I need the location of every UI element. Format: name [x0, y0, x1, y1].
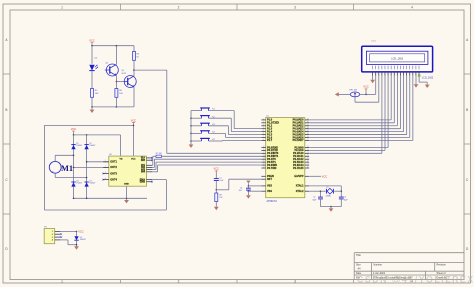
wire [360, 93, 366, 95]
svg-text:17: 17 [263, 167, 265, 169]
pin XTAL1 [305, 185, 309, 187]
pin 10 LCD [399, 66, 401, 70]
pin 5 LCD [384, 66, 386, 70]
pin OUT4 [103, 179, 109, 181]
svg-text:27: 27 [307, 164, 309, 166]
button K5 [191, 140, 202, 142]
LED D5 [89, 65, 94, 71]
wire IN4 to P3.6 [152, 171, 158, 173]
wire [91, 97, 93, 107]
svg-text:B: B [5, 108, 7, 112]
svg-text:VSS: VSS [267, 185, 272, 188]
node Q1 emitter / Q2 base [116, 81, 118, 83]
wire [247, 186, 249, 188]
wire [248, 185, 261, 187]
pin 16 LCD [418, 66, 420, 70]
wire motor bottom terminal [54, 173, 56, 177]
pin P0.6/AD6 [305, 136, 309, 138]
svg-text:B: B [466, 108, 468, 112]
pin P0.0/AD0 [305, 119, 309, 121]
pin 15 LCD [415, 66, 417, 70]
svg-text:CSDN @47/YOLIZREXY: CSDN @47/YOLIZREXY [357, 275, 474, 285]
wire RW [384, 76, 386, 151]
ground under buttons [189, 145, 194, 148]
svg-text:15: 15 [263, 161, 265, 163]
wire [216, 189, 229, 191]
svg-text:XTAL1: XTAL1 [296, 185, 304, 188]
wire LCD BLK to ground [418, 76, 420, 83]
svg-text:10: 10 [263, 146, 265, 148]
trimmer RP1 [350, 92, 359, 97]
svg-text:VCC: VCC [71, 127, 77, 131]
ground LCD BLA [414, 84, 419, 87]
svg-text:VCC: VCC [322, 174, 328, 178]
wire [321, 206, 342, 208]
svg-text:30pF: 30pF [312, 199, 316, 201]
svg-text:Title: Title [356, 253, 361, 257]
svg-text:22: 22 [307, 149, 309, 151]
svg-text:32: 32 [307, 139, 309, 141]
capacitor C3 30pF [339, 196, 344, 198]
svg-text:4: 4 [52, 239, 53, 242]
svg-text:VCC: VCC [89, 38, 95, 42]
buttons common line [190, 111, 192, 145]
pin P0.7/AD7 [305, 139, 309, 141]
ground connector [74, 246, 79, 249]
pin P3.0/RXD [261, 147, 265, 149]
connector P1 [44, 229, 55, 244]
node RST [216, 189, 218, 191]
capacitor C2 30pF [318, 196, 323, 198]
wire column A [73, 135, 75, 198]
wire to MCU [134, 69, 167, 71]
pin PSEN [261, 175, 265, 177]
wire [91, 71, 93, 89]
wire IN3 to P3.5 [152, 169, 156, 171]
svg-text:39: 39 [307, 118, 309, 120]
svg-text:P1.7: P1.7 [267, 139, 273, 142]
svg-text:P3.7/RD: P3.7/RD [267, 167, 277, 170]
svg-text:XTAL2: XTAL2 [296, 190, 304, 193]
resistor R6 [115, 89, 118, 98]
pin P2.2/A10 [305, 152, 309, 154]
svg-text:P0.7/AD7: P0.7/AD7 [293, 139, 304, 142]
pin P1.4 [261, 131, 265, 133]
wire driver GND pin [126, 186, 128, 198]
pin ISA [146, 157, 152, 159]
wire XTAL1 [309, 185, 341, 187]
wire Q1 emitter [115, 76, 117, 89]
wire motor loop [43, 125, 45, 210]
svg-text:LCD_1602: LCD_1602 [422, 76, 434, 79]
pin 6 LCD [387, 66, 389, 70]
wire node B to OUT1 [87, 161, 109, 163]
pin 11 LCD [403, 66, 405, 70]
svg-text:LCD_1602: LCD_1602 [391, 57, 404, 60]
svg-text:1: 1 [61, 279, 63, 283]
wire [248, 190, 261, 192]
pin RST [261, 178, 265, 180]
node PWM out [133, 69, 135, 71]
wire [247, 191, 249, 195]
pin ENB [146, 181, 152, 183]
wire [152, 179, 166, 181]
svg-text:OUT2: OUT2 [110, 166, 117, 169]
pin 13 LCD [409, 66, 411, 70]
pin 1 LCD [372, 66, 374, 70]
pin OUT1 [103, 161, 109, 163]
pin P2.7/A15 [305, 167, 309, 169]
pin OUT2 [103, 166, 109, 168]
pin P1.1/T2EX [261, 122, 265, 124]
button K1 [191, 110, 202, 112]
pin 2 connector [55, 233, 61, 235]
svg-text:Y1: Y1 [326, 187, 328, 189]
pin P1.3 [261, 128, 265, 130]
pin IN3 [146, 169, 152, 171]
pin P2.6/A14 [305, 164, 309, 166]
wire LCD VSS to ground [372, 76, 374, 80]
svg-text:P2.7/A15: P2.7/A15 [293, 167, 304, 170]
capacitor C1 [214, 178, 219, 180]
ground LCD BLK [425, 85, 430, 88]
wire LCD BLA to ground [415, 76, 417, 85]
svg-text:AT89C51: AT89C51 [267, 200, 278, 203]
pin P2.4/A12 [305, 158, 309, 160]
svg-text:23: 23 [307, 152, 309, 154]
svg-text:EA/VPP: EA/VPP [294, 175, 304, 178]
svg-text:34: 34 [307, 133, 309, 135]
svg-text:1: 1 [52, 231, 53, 233]
svg-text:OUT3: OUT3 [110, 172, 117, 175]
pin XTAL2 [305, 190, 309, 192]
svg-text:1: 1 [61, 6, 63, 10]
svg-text:VCC: VCC [363, 85, 369, 89]
svg-text:VCC: VCC [131, 118, 137, 122]
pin 3 connector [55, 236, 61, 238]
wire connector pin1 to VCC [60, 230, 76, 232]
svg-text:RP1 10K: RP1 10K [350, 90, 358, 92]
pin P3.5/T1 [261, 161, 265, 163]
svg-text:1N4007: 1N4007 [80, 239, 86, 241]
wire to driver VCC pin [120, 135, 122, 156]
diode D2 1N4007 [84, 144, 88, 146]
wire [215, 202, 217, 207]
ground under R5 [91, 107, 93, 110]
wire driver ENB to loop [165, 180, 167, 210]
svg-text:13: 13 [263, 155, 265, 157]
pin 1 connector [55, 230, 61, 232]
wire K1 to MCU [233, 111, 235, 129]
wire [91, 46, 93, 64]
wire top rail [92, 45, 134, 47]
wire [340, 199, 342, 207]
svg-text:RST: RST [267, 178, 272, 181]
svg-text:R7 10K: R7 10K [156, 153, 163, 155]
svg-text:Q2: Q2 [122, 70, 125, 72]
transistor Q1 [106, 64, 118, 76]
capacitor C4 [246, 187, 251, 189]
wire IN1 to P3.3 with series resistor R7 [151, 164, 154, 166]
wire RS [381, 76, 383, 154]
wire K3 to MCU [227, 126, 229, 135]
wire K5 to MCU [222, 139, 224, 142]
wire [339, 93, 351, 95]
ground crystal [329, 208, 334, 211]
crystal Y1 [321, 190, 326, 192]
pin P0.1/AD1 [305, 122, 309, 124]
button K2 [191, 117, 202, 119]
wire Q2 collector [133, 60, 135, 76]
svg-text:3: 3 [52, 237, 53, 239]
pin P1.5 [261, 134, 265, 136]
node B [86, 177, 88, 179]
wire E [387, 76, 389, 148]
wire D6 [409, 76, 411, 138]
pin IN4 [146, 171, 152, 173]
net label LCD_1602 [418, 74, 421, 77]
svg-text:M1: M1 [61, 164, 73, 173]
wire column B [86, 135, 88, 198]
svg-text:1N4007: 1N4007 [89, 183, 95, 185]
svg-text:R8: R8 [219, 195, 221, 197]
svg-text:25: 25 [307, 158, 309, 160]
pin P2.1/A9 [305, 149, 309, 151]
wire to driver VS pin [133, 125, 135, 156]
wire [247, 190, 249, 191]
node collector Q1 [116, 45, 118, 47]
pin 4 LCD [381, 66, 383, 70]
svg-text:3: 3 [294, 279, 296, 283]
wire VCC rail [74, 134, 121, 136]
button K3 [191, 125, 202, 127]
wire Q1 collector [115, 46, 117, 65]
diode D1 1N4007 [71, 144, 75, 146]
svg-text:ENB: ENB [140, 181, 145, 184]
resistor R4 [133, 52, 136, 61]
pin P3.1/TXD [261, 149, 265, 151]
pin 12 LCD [406, 66, 408, 70]
wire D7 [412, 76, 414, 141]
pin P0.5/AD5 [305, 134, 309, 136]
diode D6 1N4007 [74, 236, 78, 240]
svg-text:OUT4: OUT4 [110, 178, 117, 181]
wire bottom rail [92, 106, 134, 108]
svg-text:OUT1: OUT1 [110, 161, 117, 164]
svg-text:26: 26 [307, 161, 309, 163]
MCU U1 AT89C51 [266, 118, 305, 198]
pin EA/VPP [305, 175, 309, 177]
svg-text:21: 21 [307, 146, 309, 148]
wire [76, 231, 78, 236]
svg-text:30pF: 30pF [344, 199, 348, 201]
resistor R5 [91, 89, 94, 98]
wire K2 to MCU [230, 118, 232, 131]
wire motor top terminal [54, 155, 56, 161]
svg-text:VCC: VCC [214, 167, 220, 171]
svg-text:36: 36 [307, 127, 309, 129]
wire [215, 190, 217, 193]
svg-text:VCC: VCC [78, 230, 84, 234]
power GND arrow above C4 [246, 181, 250, 184]
wire Q2 emitter [133, 87, 135, 107]
pin P3.4/T0 [261, 158, 265, 160]
svg-text:2: 2 [178, 279, 180, 283]
svg-text:LCD1: LCD1 [371, 41, 377, 43]
wire [116, 81, 124, 83]
diode D4 1N4007 [84, 181, 88, 183]
wire vertical [166, 70, 168, 153]
pin 9 LCD [396, 66, 398, 70]
svg-text:28: 28 [307, 167, 309, 169]
svg-text:11: 11 [263, 149, 265, 151]
pin P2.5/A13 [305, 161, 309, 163]
ground rail under driver [74, 197, 148, 199]
svg-text:35: 35 [307, 130, 309, 132]
pin P2.3/A11 [305, 155, 309, 157]
svg-text:12: 12 [263, 152, 265, 154]
wire [215, 181, 217, 190]
wire D1 [393, 76, 395, 123]
pin P3.6/WR [261, 164, 265, 166]
pin P0.2/AD2 [305, 125, 309, 127]
ground C4 [246, 195, 251, 198]
wire [76, 240, 78, 246]
svg-text:ISB: ISB [141, 159, 145, 162]
svg-text:4: 4 [411, 6, 413, 10]
svg-text:GND: GND [124, 184, 129, 186]
svg-text:Number: Number [374, 264, 383, 267]
wire [133, 46, 135, 52]
pin P0.3/AD3 [305, 128, 309, 130]
pin P3.3/INT1 [261, 155, 265, 157]
svg-text:2: 2 [52, 234, 53, 236]
svg-text:33: 33 [307, 136, 309, 138]
svg-text:24: 24 [307, 155, 309, 157]
wire D3 [399, 76, 401, 129]
wire EA to VCC [309, 175, 321, 177]
pin P1.0 [261, 119, 265, 121]
svg-text:3: 3 [294, 6, 296, 10]
pin P3.2/INT0 [261, 152, 265, 154]
svg-text:16: 16 [263, 164, 265, 166]
svg-text:12MHz: 12MHz [326, 196, 332, 198]
svg-text:1N4007: 1N4007 [89, 145, 95, 147]
wire RP1 wiper to LCD VL [354, 97, 356, 102]
pin 7 LCD [390, 66, 392, 70]
wire LCD VDD to VCC [375, 76, 377, 95]
wire [115, 97, 117, 107]
pin IN2 [146, 166, 152, 168]
svg-text:VSS: VSS [267, 190, 272, 193]
ground left arrow at RP1 [335, 92, 339, 96]
motor driver U2 [109, 156, 147, 186]
pin P2.0/A8 [305, 147, 309, 149]
pin P1.2 [261, 125, 265, 127]
title block [354, 252, 464, 254]
ground [90, 110, 95, 113]
pin VSS [261, 190, 265, 192]
svg-text:1N4007: 1N4007 [76, 183, 82, 185]
diode D3 1N4007 [71, 181, 75, 183]
wire D2 [396, 76, 398, 126]
wire XTAL2 [309, 190, 320, 192]
svg-text:C2: C2 [313, 197, 315, 199]
resistor R8 [215, 193, 218, 202]
pin 14 LCD [412, 66, 414, 70]
pin 2 LCD [375, 66, 377, 70]
svg-text:38: 38 [307, 121, 309, 123]
wire K4 to MCU [225, 133, 227, 137]
wire [320, 199, 322, 207]
wire D4 [403, 76, 405, 132]
pin P1.6 [261, 136, 265, 138]
svg-text:IN4: IN4 [141, 171, 146, 174]
ground reset [214, 207, 219, 210]
svg-text:9013: 9013 [122, 73, 126, 75]
pin ISB [146, 159, 152, 161]
wire to P3.2 [167, 152, 262, 154]
transistor Q2 [124, 76, 136, 88]
svg-text:2: 2 [178, 6, 180, 10]
wire D5 [406, 76, 408, 135]
pin P3.7/RD [261, 167, 265, 169]
ground driver [124, 200, 129, 203]
svg-text:14: 14 [263, 158, 265, 160]
pin 3 LCD [378, 66, 380, 70]
svg-text:C3: C3 [344, 197, 346, 199]
svg-text:104: 104 [239, 190, 242, 192]
button K4 [191, 132, 202, 134]
ground LCD VSS [370, 80, 375, 83]
pin IN1 [146, 164, 152, 166]
wire IN2 to P3.4 [152, 166, 154, 168]
svg-text:37: 37 [307, 124, 309, 126]
svg-text:Size: Size [356, 264, 361, 267]
wire node A to OUT2 [74, 166, 109, 168]
pin ENA [146, 179, 152, 181]
wire connector pin4 loop [60, 239, 68, 241]
svg-text:VCC: VCC [131, 159, 136, 161]
pin P1.7 [261, 139, 265, 141]
svg-text:1N4007: 1N4007 [76, 145, 82, 147]
pin P0.4/AD4 [305, 131, 309, 133]
pin OUT3 [103, 173, 109, 175]
pin VSS [261, 185, 265, 187]
node A [73, 155, 75, 157]
pin 8 LCD [393, 66, 395, 70]
wire D0 [390, 76, 392, 120]
motor M1 [49, 161, 61, 173]
pin 4 connector [55, 239, 61, 241]
svg-text:Revision: Revision [437, 264, 447, 267]
